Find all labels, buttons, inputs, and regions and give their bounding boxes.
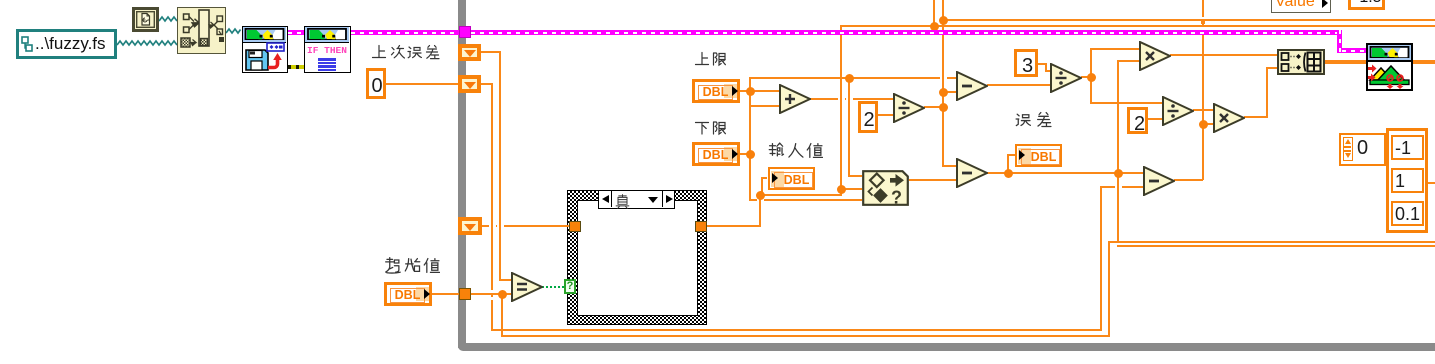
property node Value (clipped at top) (1271, 0, 1331, 13)
wire: select bottom input (750, 199, 862, 201)
wire: SR1 out (481, 51, 500, 53)
while loop left border (458, 0, 466, 348)
wire: upper-limit line to subtract1 (750, 77, 956, 79)
wire: multiply2 out elbow (1266, 67, 1268, 118)
wire: tunnel to equals bottom input (470, 293, 511, 295)
wire: SR2 out (481, 83, 492, 85)
shift register SR2 (458, 75, 481, 93)
wire: loader out squiggle (226, 26, 242, 36)
label: last error (shang ci wu cha) (371, 44, 387, 60)
wire: x1118 vertical (1117, 60, 1119, 243)
wire: input-value DBL stub (762, 177, 767, 179)
node: x1203 crossing stub (1201, 21, 1205, 24)
wire: error DBL input (1008, 154, 1015, 156)
function: subtract3 (1143, 166, 1175, 196)
wire: x1109 vertical (1108, 241, 1110, 337)
while loop bottom border (458, 343, 1435, 351)
function: subtract2 (956, 158, 988, 188)
function: equals (511, 272, 543, 302)
case selector terminal ? (564, 279, 576, 294)
wire: subtract2 top input (943, 165, 956, 167)
wire: subtract3 bottom input (1101, 186, 1143, 188)
VI icon: fuzzy controller IF THEN (304, 26, 351, 73)
wire: node A to x841 (760, 194, 841, 196)
wire: array constant stub (1428, 182, 1435, 184)
wire: error DBL elbow (1007, 154, 1009, 174)
label: upper limit (694, 51, 710, 67)
spinner constant 0 (1339, 133, 1386, 166)
constant 0 (366, 68, 386, 99)
wire: divide3 out (1193, 109, 1213, 111)
wire crossing gaps (838, 98, 845, 100)
function: multiply2 (1213, 103, 1245, 133)
wire: cluster main run (471, 30, 1342, 35)
function: divide (midpoint) (893, 93, 925, 123)
wire: divide3 top input (1091, 102, 1162, 104)
wire: select middle input (841, 188, 862, 190)
constant 3 (1014, 49, 1038, 77)
function: build array (1277, 49, 1325, 75)
wire: SR1 down to equals (499, 51, 501, 281)
node B: select middle junction (837, 185, 846, 194)
wire: case right tunnel out (706, 225, 761, 227)
wire: cluster vertical bend (1337, 30, 1342, 53)
wire: subtract1 out to divide2 (987, 84, 1050, 86)
node: x943 top (939, 16, 948, 25)
wire: 0 constant to SR2 (386, 83, 458, 85)
glyph true (615, 194, 630, 209)
wire: add bottom input (750, 105, 779, 107)
label: lower limit (694, 120, 710, 136)
wire: x1101 vertical (1100, 186, 1102, 331)
tunnel: case left (569, 221, 581, 232)
wire: case tunnel up to node A (759, 194, 761, 227)
node: error line left (1004, 169, 1013, 178)
wire: lower right line 2 (1117, 245, 1435, 247)
wire: x841 vertical (840, 25, 842, 196)
control: lower limit DBL (692, 142, 740, 166)
wire: top line 1 (943, 19, 1435, 21)
wire: start value down to bottom line 2 (501, 293, 503, 337)
wire: divide1 out (924, 106, 943, 108)
numeric constant (clipped at top) (1348, 0, 1385, 10)
wire: x849 vertical (848, 77, 850, 177)
node: upper-limit junction (746, 87, 755, 96)
wire: const 2 out (878, 114, 893, 116)
wire: DBL upper-limit out / add top input (738, 90, 779, 92)
label: start value (384, 257, 401, 274)
indicator icon: membership plot chart (1366, 43, 1413, 91)
node: divide1 out (939, 103, 948, 112)
wire: subtract3 out (1174, 179, 1203, 181)
function: multiply1 (1139, 41, 1171, 71)
wire: const 3 out a (1038, 63, 1047, 65)
function: divide2 (by 3) (1050, 63, 1082, 93)
wire: equals out (green dotted) (542, 286, 565, 288)
wire: file icon squiggle (159, 14, 177, 24)
wire: equals top input (500, 279, 511, 281)
node: lower-limit junction (746, 150, 755, 159)
wire: long bottom line 2 (502, 335, 1109, 337)
node: subtract1 bottom (939, 88, 948, 97)
VI icon: fuzzy load (floppy) (242, 26, 288, 73)
array constant [-1,1,0.1] (1386, 128, 1428, 233)
wire: x934 vertical (933, 0, 935, 27)
node: error line x1118 (1114, 169, 1123, 178)
wire: chart out thick (1413, 60, 1435, 64)
case structure interior (577, 200, 698, 316)
constant 2b (1127, 107, 1148, 134)
wire: top line 2 (841, 25, 1435, 27)
wire: array out thick (1325, 60, 1366, 64)
control: upper limit DBL (692, 79, 740, 103)
wire: select out to subtract2 (909, 179, 956, 181)
constant 2 (half) (858, 101, 878, 133)
wire: subtract1 bottom input (943, 91, 956, 93)
wire: multiply2 bottom input (1203, 123, 1213, 125)
function: select (862, 170, 909, 206)
wire: multiply2 out (1244, 116, 1267, 118)
indicator: error DBL (1015, 144, 1062, 167)
shift register SR3 (458, 217, 482, 235)
wire: x1203 vertical (1202, 0, 1204, 180)
wire: divide2 out (1081, 76, 1091, 78)
label: error (1014, 111, 1031, 128)
file ref icon (132, 7, 159, 32)
wire: build-array bottom input (1267, 67, 1277, 69)
wire: olive dashed between VI icons (288, 65, 304, 69)
fuzzy loader icon (177, 7, 226, 54)
tunnel: case right (695, 221, 707, 232)
wire: path squiggle to loader (117, 38, 177, 48)
wire: limits vertical x750 (749, 77, 751, 201)
wire: const 2b out (1148, 118, 1162, 120)
wire: long bottom line 1 (492, 329, 1101, 331)
wire: SR3 to case left tunnel (482, 225, 569, 227)
function: subtract1 (956, 71, 988, 101)
node: equals bottom / start value (498, 290, 507, 299)
wire: multiply1 bottom input (1118, 60, 1139, 62)
node: divide2 out (1087, 73, 1096, 82)
function: add (779, 84, 811, 114)
tunnel: start value on loop border (459, 288, 471, 300)
tunnel: cluster on loop border (459, 26, 471, 38)
path constant ..\fuzzy.fs (16, 29, 117, 59)
wire: SR2 down to bottom line (491, 83, 493, 331)
node: x934 top (930, 22, 939, 31)
function: divide3 (by 2) (1162, 96, 1194, 126)
wire: start value terminal to tunnel (432, 293, 459, 295)
node: multiply2 bottom (1199, 120, 1208, 129)
wire: add out to divide1 (810, 98, 893, 100)
crossing gaps on x1203 (491, 290, 493, 293)
wire: divide2 out up/down (1090, 48, 1092, 104)
wire: error line subtract2-out to subtract3 (987, 172, 1143, 174)
wire: const 3 out b (1045, 70, 1050, 72)
wire: select top input (849, 175, 862, 177)
wire: multiply1 out to build-array (1170, 54, 1277, 56)
control: start value DBL (384, 282, 432, 306)
wire: DBL lower-limit out (738, 153, 750, 155)
wire: cluster VI2 to loop tunnel (351, 30, 459, 35)
wire: multiply1 top input (1091, 48, 1139, 50)
wire: lower right line 1 (1109, 241, 1435, 243)
wire: cluster between VI icons (288, 30, 304, 35)
node A: input value / case out (756, 191, 765, 200)
svg-text:?: ? (891, 188, 902, 207)
case structure border (checkered) (567, 190, 707, 325)
node: x849 on upper-limit line (845, 74, 854, 83)
shift register SR1 (458, 44, 481, 61)
indicator: input value DBL (768, 167, 815, 190)
label: input value (768, 142, 785, 159)
wire: x943 vertical (942, 0, 944, 167)
wire: const3 elbow (1045, 63, 1047, 72)
wire: cluster into chart (1342, 48, 1366, 53)
wire: input-value DBL down (761, 177, 763, 195)
